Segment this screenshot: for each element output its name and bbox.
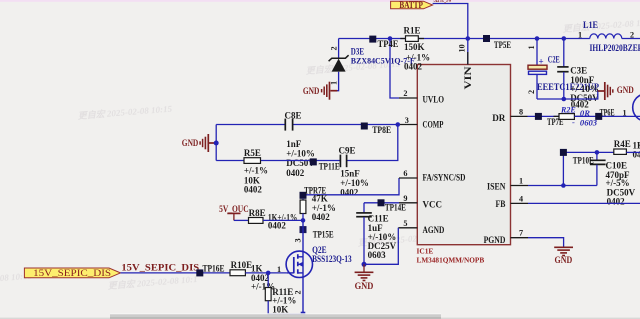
svg-text:0402: 0402 bbox=[268, 221, 287, 231]
svg-text:47K: 47K bbox=[312, 193, 328, 203]
svg-text:15V_SEPIC_DIS: 15V_SEPIC_DIS bbox=[121, 262, 199, 272]
svg-text:15nF: 15nF bbox=[340, 168, 360, 178]
svg-text:COMP: COMP bbox=[423, 121, 444, 131]
transistor Q1E (partial at edge) bbox=[633, 94, 640, 122]
pin stub DR pin 8 bbox=[511, 115, 528, 117]
svg-text:R1E: R1E bbox=[404, 26, 421, 36]
ground (input caps) bbox=[598, 82, 634, 100]
svg-text:TP16E: TP16E bbox=[203, 263, 225, 273]
wire: AGND to ground bbox=[364, 228, 398, 264]
svg-text:C2E: C2E bbox=[548, 55, 560, 65]
test point TP10E bbox=[560, 149, 594, 165]
wire: 5V_OUC to R8E bbox=[234, 219, 249, 221]
test point TP15E bbox=[300, 226, 334, 239]
test point TP5E bbox=[483, 35, 511, 50]
svg-text:C11E: C11E bbox=[368, 213, 389, 223]
test point TPR7E bbox=[300, 186, 327, 199]
resistor R1E bbox=[400, 26, 430, 72]
capacitor C11E bbox=[356, 203, 396, 264]
svg-text:150K: 150K bbox=[404, 42, 425, 52]
power symbol 5V_OUC bbox=[219, 205, 249, 220]
capacitor C3E bbox=[557, 39, 599, 110]
resistor R11E (vertical) bbox=[265, 273, 303, 319]
svg-text:0402: 0402 bbox=[633, 149, 640, 159]
wire: ISEN net bbox=[528, 185, 597, 187]
test point TP6E bbox=[595, 107, 614, 120]
pink top strip bbox=[0, 0, 640, 2]
svg-text:10: 10 bbox=[458, 44, 467, 52]
svg-text:BATTP: BATTP bbox=[399, 0, 423, 10]
svg-text:L1E: L1E bbox=[583, 20, 598, 30]
IC U1 body IC1E bbox=[417, 65, 510, 245]
wire: FA/SYNC/SD branch bbox=[303, 178, 399, 195]
node: source/R11E junction bbox=[301, 312, 306, 317]
svg-text:2: 2 bbox=[330, 46, 339, 50]
svg-text:3: 3 bbox=[405, 116, 409, 125]
svg-text:LM3481QMM/NOPB: LM3481QMM/NOPB bbox=[417, 256, 485, 265]
node: junction R7E/R8E/TP15E bbox=[301, 218, 306, 223]
pin stub COMP pin 3 bbox=[399, 124, 417, 126]
svg-text:TP6E: TP6E bbox=[600, 107, 615, 117]
svg-text:SEPIC_SW: SEPIC_SW bbox=[434, 0, 452, 4]
svg-text:C8E: C8E bbox=[285, 110, 302, 120]
wire: ISEN riser to TP10E bbox=[563, 152, 613, 185]
wire: FB net to edge bbox=[528, 202, 640, 204]
power flag BATTP bbox=[391, 0, 433, 10]
svg-text:5: 5 bbox=[403, 219, 407, 228]
svg-text:TP5E: TP5E bbox=[494, 40, 511, 50]
svg-text:PGND: PGND bbox=[484, 236, 506, 246]
svg-text:R4E: R4E bbox=[614, 139, 631, 149]
svg-text:C9E: C9E bbox=[339, 146, 356, 156]
svg-text:TP14E: TP14E bbox=[385, 202, 406, 212]
svg-text:R5E: R5E bbox=[244, 148, 261, 158]
power flag 15V_SEPIC_DIS bbox=[24, 268, 120, 278]
svg-text:BSS123Q-13: BSS123Q-13 bbox=[312, 254, 352, 264]
svg-text:R10E: R10E bbox=[231, 260, 253, 270]
svg-text:TP8E: TP8E bbox=[372, 125, 391, 135]
node: junction C3E bottom bbox=[562, 97, 567, 102]
svg-text:0402: 0402 bbox=[312, 212, 331, 222]
svg-text:IC1E: IC1E bbox=[417, 247, 434, 256]
wire: R8E to gate-drive node bbox=[263, 219, 303, 221]
pin stub FB pin 4 bbox=[511, 202, 529, 204]
node: junction C2E top bbox=[535, 36, 540, 41]
svg-text:15V_SEPIC_DIS: 15V_SEPIC_DIS bbox=[33, 268, 111, 278]
svg-text:+/-10%: +/-10% bbox=[286, 149, 315, 159]
wire: TP15E down to Q2E drain bbox=[302, 220, 304, 314]
resistor R7E (vertical 47K) bbox=[300, 193, 336, 222]
wire: R2E to Q1E gate bbox=[574, 115, 640, 117]
resistor R8E bbox=[249, 208, 298, 231]
svg-text:VIN: VIN bbox=[464, 66, 474, 89]
wire: VCC to C11E bbox=[364, 202, 399, 204]
pin stub VIN (pin 10) bbox=[467, 52, 469, 65]
wire: PGND to ground bbox=[528, 238, 564, 247]
svg-text:FA/SYNC/SD: FA/SYNC/SD bbox=[423, 173, 466, 183]
svg-text:2: 2 bbox=[630, 31, 634, 40]
svg-text:ISEN: ISEN bbox=[487, 182, 506, 192]
svg-text:IHLP2020BZER4R7M01: IHLP2020BZER4R7M01 bbox=[590, 44, 640, 54]
svg-text:1K: 1K bbox=[251, 264, 263, 274]
ground (diode) bbox=[303, 82, 337, 100]
svg-text:3: 3 bbox=[294, 238, 303, 242]
resistor R2E (0R) bbox=[554, 106, 598, 128]
svg-text:1: 1 bbox=[622, 108, 626, 117]
svg-text:4: 4 bbox=[519, 195, 523, 204]
capacitor C2E (polarized) bbox=[527, 39, 599, 100]
svg-text:1: 1 bbox=[527, 45, 536, 49]
wire: COMP network bottom branch bbox=[216, 160, 244, 162]
svg-text:+/-1%: +/-1% bbox=[244, 166, 268, 176]
resistor R4E bbox=[614, 139, 640, 159]
svg-text:+: + bbox=[539, 57, 544, 67]
svg-text:1: 1 bbox=[519, 176, 523, 185]
ground (comp network) bbox=[182, 125, 219, 161]
node: junction C10E top bbox=[595, 150, 600, 155]
capacitor C9E bbox=[339, 146, 369, 198]
svg-text:0402: 0402 bbox=[340, 188, 359, 198]
svg-text:FB: FB bbox=[496, 200, 506, 210]
wire: R10E to Q2E gate bbox=[245, 272, 286, 274]
node: junction R11E tap bbox=[266, 271, 271, 276]
node: junction C3E top bbox=[562, 36, 567, 41]
wire: capacitors bottom to GND bbox=[537, 91, 600, 99]
bottom gray bar bbox=[0, 318, 640, 319]
svg-text:GND: GND bbox=[617, 85, 634, 95]
svg-text:1: 1 bbox=[330, 81, 339, 85]
svg-text:0603: 0603 bbox=[580, 117, 598, 127]
svg-text:1: 1 bbox=[578, 31, 582, 40]
wire: main top rail bbox=[339, 38, 590, 40]
capacitor C8E bbox=[285, 110, 316, 178]
test point TP14E bbox=[378, 199, 406, 212]
pin stub VCC pin 9 bbox=[399, 202, 417, 204]
svg-text:+/-10%: +/-10% bbox=[340, 178, 369, 188]
svg-text:TP15E: TP15E bbox=[313, 229, 334, 239]
pin stub PGND pin 7 bbox=[511, 237, 529, 239]
ground (AGND) bbox=[355, 264, 374, 291]
svg-text:2: 2 bbox=[294, 290, 303, 294]
svg-text:DR: DR bbox=[492, 114, 505, 124]
test point TP4E bbox=[369, 36, 376, 43]
svg-text:GND: GND bbox=[182, 138, 199, 148]
ground (PGND) bbox=[554, 247, 573, 265]
capacitor C10E bbox=[590, 152, 636, 206]
svg-text:TP4E: TP4E bbox=[378, 39, 399, 49]
svg-text:VCC: VCC bbox=[423, 200, 443, 210]
svg-text:GND: GND bbox=[555, 255, 573, 265]
node: junction C11E/AGND bbox=[362, 262, 367, 267]
svg-text:0402: 0402 bbox=[244, 185, 263, 195]
svg-text:7: 7 bbox=[519, 229, 523, 238]
svg-text:0402: 0402 bbox=[607, 197, 626, 207]
diode D3E (zener BZX84C5V1Q-7-F) bbox=[329, 39, 415, 91]
wire: top rail after inductor bbox=[622, 38, 640, 40]
svg-text:R2E: R2E bbox=[560, 106, 576, 115]
pin stub FA pin 6 bbox=[399, 177, 417, 179]
wire: BATTP flag to VIN vertical bbox=[433, 4, 468, 65]
test point TP7E bbox=[535, 113, 564, 127]
node: junction comp bbox=[396, 122, 401, 127]
svg-text:6: 6 bbox=[403, 169, 407, 178]
svg-text:0603: 0603 bbox=[368, 250, 387, 260]
resistor R5E bbox=[244, 148, 268, 195]
svg-text:-: - bbox=[572, 117, 575, 127]
pin stub ISEN pin 1 bbox=[511, 185, 529, 187]
transistor Q2E (BSS123Q-13) bbox=[277, 238, 352, 294]
test point TP16E bbox=[196, 263, 224, 276]
svg-text:0402: 0402 bbox=[286, 168, 305, 178]
svg-text:C10E: C10E bbox=[606, 160, 628, 170]
svg-text:R8E: R8E bbox=[249, 208, 266, 218]
svg-text:2: 2 bbox=[403, 89, 407, 98]
resistor R10E bbox=[230, 260, 275, 291]
inductor L1E bbox=[578, 20, 640, 54]
node: junction ISEN riser bbox=[561, 183, 566, 188]
svg-text:1nF: 1nF bbox=[286, 139, 302, 149]
wire: UVLO branch bbox=[390, 39, 399, 99]
svg-text:UVLO: UVLO bbox=[423, 96, 445, 106]
test point TP11E bbox=[310, 158, 340, 171]
svg-text:BZX84C5V1Q-7-F: BZX84C5V1Q-7-F bbox=[351, 55, 415, 65]
wire: DR to R2E bbox=[528, 115, 560, 117]
svg-text:2: 2 bbox=[527, 90, 536, 94]
wire: R4E to edge bbox=[626, 151, 640, 153]
pin stub UVLO pin 2 bbox=[399, 97, 417, 99]
svg-text:GND: GND bbox=[355, 281, 374, 291]
test point TP8E bbox=[361, 123, 391, 136]
svg-text:C3E: C3E bbox=[570, 65, 587, 75]
pin stub AGND pin 5 bbox=[398, 227, 417, 229]
svg-text:8: 8 bbox=[519, 107, 523, 116]
wire: COMP network top branch bbox=[216, 124, 285, 126]
svg-text:AGND: AGND bbox=[423, 226, 445, 236]
svg-text:GND: GND bbox=[303, 86, 320, 96]
node: junction UVLO tap bbox=[388, 36, 393, 41]
wire: 15V_SEPIC_DIS to R10E bbox=[121, 272, 231, 274]
node: junction BATTP/VIN bbox=[466, 36, 471, 41]
svg-text:TP11E: TP11E bbox=[319, 162, 340, 172]
